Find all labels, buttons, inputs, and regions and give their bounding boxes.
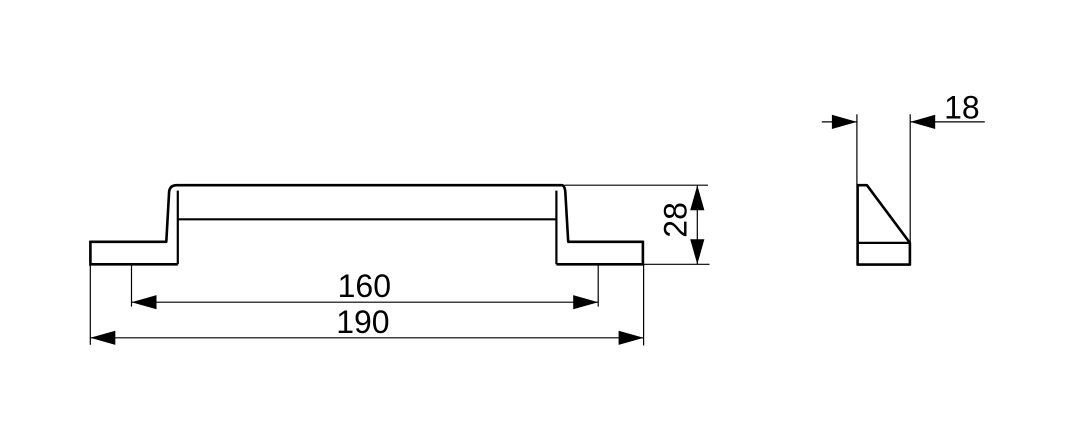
dimension 28: extension line bottom (643, 263, 710, 265)
front view: bottom edge of top bar (178, 218, 557, 220)
dimension 18: dimension line left segment (822, 121, 857, 123)
side view: foot top edge (858, 242, 910, 244)
dimension 190: dimension line (90, 337, 643, 339)
dimension 160: extension line right (597, 265, 599, 307)
dimension 18: left arrowhead (points right) (832, 115, 857, 129)
front view: left foot left edge and bottom (90, 241, 177, 265)
dimension 18: dimension line right segment (910, 121, 985, 123)
dimension 28: extension line top (565, 184, 709, 186)
dimension 28: top arrowhead (690, 185, 704, 210)
dimension 18: extension line left (856, 114, 858, 185)
svg-text:18: 18 (944, 90, 980, 126)
dimension 18: right arrowhead (points left) (910, 115, 935, 129)
front view: right foot right edge and bottom (556, 241, 643, 265)
dimension 28: bottom arrowhead (690, 239, 704, 264)
svg-text:28: 28 (658, 202, 694, 238)
front view: left leg inner vertical edge (177, 191, 179, 265)
dimension 160: right arrowhead (573, 295, 598, 309)
dimension 190: left arrowhead (90, 331, 115, 345)
svg-text:160: 160 (338, 268, 391, 304)
dimension 18: extension line right (909, 114, 911, 243)
dimension 160: left arrowhead (132, 295, 157, 309)
side view: body outline (858, 185, 910, 264)
front view: outer contour of handle (90, 185, 643, 242)
dimension 190: extension line left (89, 265, 91, 345)
svg-text:190: 190 (336, 304, 389, 340)
dimension 190: extension line right (643, 265, 645, 346)
front view: right leg inner vertical edge (555, 191, 557, 265)
dimension 28: dimension line (696, 185, 698, 264)
dimension 160: dimension line (132, 301, 599, 303)
dimension 160: extension line left (131, 265, 133, 307)
dimension 190: right arrowhead (619, 331, 644, 345)
